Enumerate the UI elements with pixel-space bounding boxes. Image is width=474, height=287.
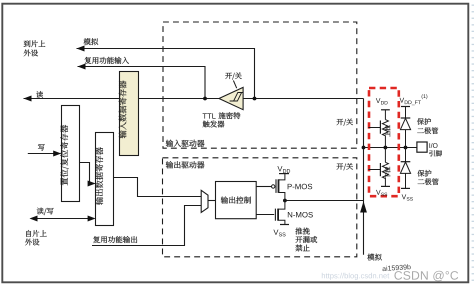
label 自片上外设 — [26, 230, 46, 237]
VDD_FT label — [400, 98, 405, 103]
label 开/关 (pull-down switch) — [337, 163, 353, 170]
VSS label under lower diode — [402, 194, 407, 199]
label 保护二极管 (upper) — [417, 118, 431, 125]
label 输出数据寄存器 (vertical) — [95, 147, 103, 205]
label 输入数据寄存器 (vertical) — [119, 81, 127, 139]
label 开/关 (pull-up switch) — [337, 119, 353, 126]
wire read: from input data register to left arrow — [24, 98, 121, 100]
watermark url — [322, 273, 389, 280]
wire output control to P-MOS gate — [256, 186, 271, 188]
wire read/write bidirectional — [31, 218, 95, 220]
VSS label below N-MOS — [273, 230, 278, 235]
label 输出驱动器 — [166, 161, 205, 168]
register: bit set/reset register box — [62, 106, 80, 202]
pull-down resistor + switch — [368, 148, 390, 187]
wire Schmitt input to right vertical I/O net — [243, 98, 363, 100]
register: output data register box — [96, 133, 114, 226]
mux trapezoid — [201, 190, 208, 212]
label 写 — [38, 144, 45, 151]
wire output data register to mux upper input — [114, 178, 202, 197]
label 下拉 — [385, 167, 391, 179]
arrowhead read/write right — [88, 216, 96, 222]
wire analog: to on-chip peripheral, taps I/O net before Schmitt — [77, 49, 255, 99]
arrowhead read/write left — [30, 216, 38, 222]
input driver dashed box — [163, 22, 357, 148]
label 复用功能输入 — [85, 57, 129, 64]
label 复用功能输出 — [93, 236, 137, 243]
label 模拟 (bottom) — [367, 254, 381, 261]
arrowhead set/reset to output data register — [88, 181, 96, 187]
label 读/写 — [37, 208, 54, 215]
VDD label above P-MOS — [277, 166, 282, 171]
TTL Schmitt trigger triangle — [219, 87, 243, 109]
arrowhead read (left) — [24, 96, 32, 102]
node analog tap — [253, 97, 257, 101]
I/O pin square — [417, 142, 427, 152]
label 置位/复位寄存器 (vertical) — [60, 125, 69, 185]
label TTL 施密特 / 触发器 — [203, 113, 216, 118]
wire Schmitt output to input data register — [138, 98, 219, 100]
arrowhead write (right) — [53, 151, 61, 157]
hysteresis symbol — [230, 93, 243, 102]
label 保护二极管 (lower) — [418, 170, 432, 177]
figure number ai15939b — [382, 264, 411, 271]
node P/N drain junction — [283, 199, 287, 203]
wire write arrow into set/reset register — [28, 153, 61, 155]
label 读 — [36, 91, 43, 98]
label 开/关 (Schmitt) — [225, 72, 241, 79]
arrowhead analog up-arrow on I/O net — [360, 201, 367, 212]
wire P/N-MOS drain junction to I/O net — [285, 200, 364, 202]
watermark CSDN — [394, 271, 458, 282]
pull-up resistor + switch — [368, 110, 389, 148]
transistor P-MOS — [272, 174, 290, 200]
protection diode lower — [400, 148, 410, 189]
output driver dashed box — [163, 158, 357, 257]
wire set/reset register to output data register — [79, 163, 95, 184]
wire mux output to output control — [208, 200, 216, 202]
label 输入驱动器 — [166, 140, 205, 147]
label 上拉 — [385, 125, 391, 137]
node pull-resistor / pin line — [384, 146, 388, 150]
node I/O net / pin line — [362, 146, 366, 150]
label 输出控制 — [221, 196, 251, 203]
red dashed highlight box (pull-up/pull-down) — [369, 88, 399, 196]
switch leader line on Schmitt — [233, 81, 236, 89]
wire alternate-function input: taps net after Schmitt output — [78, 67, 206, 99]
node after Schmitt — [203, 97, 207, 101]
register: input data register box (yellow) — [120, 72, 139, 156]
wire output control to N-MOS gate — [256, 214, 274, 216]
wire alternate-function output to mux lower input — [92, 206, 201, 246]
right edge blue dashes — [472, 5, 474, 281]
label 到片上外设 — [24, 40, 46, 47]
transistor N-MOS — [275, 200, 289, 225]
node diodes / pin line — [404, 146, 408, 150]
wire I/O pin line — [364, 147, 418, 149]
label 引脚 — [429, 150, 442, 156]
label 模拟 (top) — [84, 38, 98, 45]
arrowhead alt-func input (left) — [78, 64, 86, 70]
label 推挽/开漏或/禁止 — [295, 228, 309, 235]
output control box — [216, 182, 257, 219]
arrowhead analog (left) — [77, 46, 85, 52]
wire main I/O vertical net (down to analog label) — [363, 99, 365, 255]
protection diode upper — [400, 107, 410, 148]
